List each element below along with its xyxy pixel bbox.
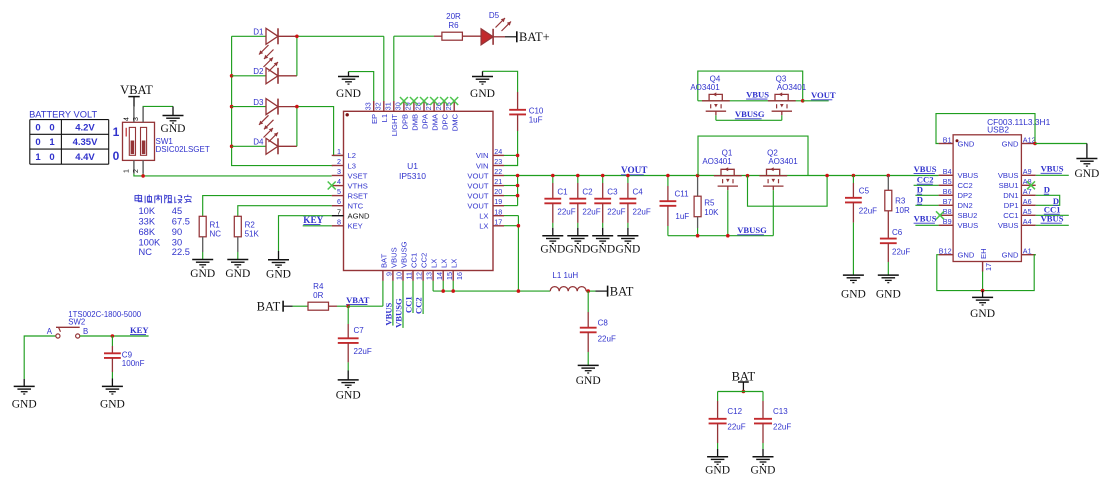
- svg-text:20R: 20R: [446, 12, 461, 21]
- U1 bottom pins 9-16: [379, 241, 464, 281]
- svg-text:4.4V: 4.4V: [75, 152, 95, 163]
- svg-text:D: D: [1044, 185, 1050, 195]
- capacitor C3: [594, 176, 611, 228]
- capacitor C5: [845, 176, 862, 276]
- svg-text:SBU2: SBU2: [958, 211, 978, 220]
- svg-text:R4: R4: [313, 282, 324, 291]
- svg-text:D5: D5: [489, 11, 500, 20]
- label Q2: [767, 148, 798, 166]
- svg-text:VTHS: VTHS: [348, 181, 368, 190]
- svg-text:6: 6: [337, 197, 341, 206]
- junction VBUS rail tap: [825, 174, 829, 178]
- svg-text:VBAT: VBAT: [120, 83, 153, 97]
- net label CC2 pin13: [414, 297, 424, 314]
- battery volt table grid: [30, 120, 109, 165]
- U1 right pins 17-24: [467, 147, 504, 231]
- svg-text:GND: GND: [565, 244, 590, 256]
- svg-text:B5: B5: [943, 177, 952, 186]
- svg-text:10: 10: [395, 272, 404, 280]
- svg-text:3: 3: [337, 167, 341, 176]
- net label VBUS A4: [1041, 214, 1064, 224]
- svg-text:GND: GND: [336, 389, 361, 401]
- LED D5: [481, 29, 505, 45]
- svg-text:VBUSG: VBUSG: [399, 241, 408, 268]
- wire LIGHT pin31 to R6: [394, 36, 434, 101]
- ground GND below C8: [576, 365, 601, 387]
- svg-text:GND: GND: [876, 289, 901, 301]
- ground GND below C12: [705, 449, 730, 477]
- wire VBUSG pin11: [402, 281, 404, 328]
- svg-text:AO3401: AO3401: [777, 83, 807, 92]
- D3 emission arrows: [259, 115, 274, 129]
- svg-text:22uF: 22uF: [859, 207, 877, 216]
- svg-text:VIN: VIN: [476, 161, 489, 170]
- svg-text:1uF: 1uF: [529, 116, 543, 125]
- svg-text:VBUSG: VBUSG: [737, 225, 767, 235]
- svg-text:EH: EH: [979, 248, 988, 259]
- svg-text:VBUSG: VBUSG: [394, 298, 404, 328]
- capacitor C8: [580, 291, 597, 365]
- connector USB2 body: [953, 135, 1021, 262]
- svg-text:B7: B7: [943, 197, 952, 206]
- svg-text:R1: R1: [210, 220, 221, 229]
- svg-text:B6: B6: [943, 187, 952, 196]
- svg-text:VBUS: VBUS: [1041, 164, 1064, 174]
- svg-text:C3: C3: [607, 187, 618, 196]
- wire VOUT pins: [504, 186, 518, 206]
- svg-text:L1: L1: [380, 114, 389, 122]
- port BAT above C12 C13: [732, 369, 756, 391]
- svg-text:C6: C6: [892, 228, 903, 237]
- svg-text:67.5: 67.5: [172, 216, 190, 226]
- capacitor C13: [754, 401, 772, 449]
- svg-text:GND: GND: [12, 399, 37, 411]
- svg-text:45: 45: [172, 206, 182, 216]
- svg-text:GND: GND: [705, 465, 730, 477]
- svg-text:VBUSG: VBUSG: [735, 109, 765, 119]
- ground GND at SW1: [161, 106, 186, 135]
- svg-text:B4: B4: [943, 167, 952, 176]
- label SW2 pin A: [47, 327, 53, 336]
- USB2 left pins: [939, 135, 979, 259]
- wire D4 anode: [232, 145, 266, 147]
- capacitor C1: [544, 176, 561, 228]
- label R6 value: [446, 12, 461, 30]
- junction C11 top: [666, 174, 670, 178]
- wire SW2 B to KEY: [80, 335, 149, 337]
- net label D B7: [917, 195, 923, 205]
- svg-text:DP2: DP2: [958, 191, 973, 200]
- D1 emission arrows: [259, 45, 274, 59]
- svg-text:CC2: CC2: [917, 175, 934, 185]
- svg-text:VBUS: VBUS: [958, 171, 979, 180]
- net label CC1 pin12: [404, 296, 414, 313]
- svg-text:VOUT: VOUT: [467, 191, 488, 200]
- svg-text:LX: LX: [479, 222, 488, 231]
- label C4: [633, 187, 651, 216]
- svg-text:32: 32: [374, 102, 383, 110]
- junction C2: [576, 174, 580, 178]
- svg-text:17: 17: [494, 217, 502, 226]
- svg-text:4.2V: 4.2V: [75, 122, 95, 133]
- svg-text:24: 24: [494, 147, 502, 156]
- svg-text:4: 4: [337, 177, 341, 186]
- ground GND below USB2: [970, 291, 995, 320]
- svg-text:VBUS: VBUS: [998, 171, 1019, 180]
- svg-text:R2: R2: [245, 220, 256, 229]
- svg-text:C8: C8: [598, 318, 609, 327]
- wire D1 D2 cathodes to L1 pin32: [297, 36, 384, 101]
- wire VBAT to pin9: [348, 281, 383, 306]
- svg-text:0R: 0R: [313, 291, 323, 300]
- USB2 right pins: [998, 135, 1036, 259]
- svg-text:10R: 10R: [895, 206, 910, 215]
- svg-text:AO3401: AO3401: [690, 83, 720, 92]
- svg-text:KEY: KEY: [303, 215, 323, 225]
- transistor Q3: [768, 92, 796, 115]
- net label VBUS at B4: [914, 164, 937, 174]
- svg-text:22uF: 22uF: [892, 248, 910, 257]
- svg-text:L2: L2: [348, 151, 356, 160]
- wire D B7: [915, 204, 938, 206]
- net label KEY at pin8: [303, 215, 323, 225]
- svg-text:51K: 51K: [245, 230, 260, 239]
- svg-text:1uF: 1uF: [675, 212, 689, 221]
- label R4: [313, 282, 324, 300]
- label D3: [253, 98, 264, 107]
- wire CC2 B5: [914, 184, 939, 186]
- SW1 pin numbers: [124, 117, 140, 173]
- ground GND below C3: [590, 228, 615, 256]
- svg-text:B1: B1: [943, 135, 952, 144]
- svg-text:22uF: 22uF: [582, 208, 600, 217]
- svg-text:0: 0: [49, 152, 54, 163]
- wire LX pins right: [504, 216, 518, 292]
- svg-text:VBUS: VBUS: [1041, 214, 1064, 224]
- net label VBAT: [346, 295, 370, 305]
- label SW2: [68, 310, 141, 326]
- wire Q3 Q4 top loop: [698, 71, 803, 101]
- svg-text:23: 23: [494, 157, 502, 166]
- resistor R6: [434, 32, 481, 40]
- power flag VBAT: [120, 83, 153, 107]
- svg-text:1: 1: [49, 137, 55, 148]
- svg-text:BAT: BAT: [732, 369, 756, 383]
- svg-text:22uF: 22uF: [607, 208, 625, 217]
- svg-text:DP1: DP1: [1004, 201, 1019, 210]
- wire Q2 gate: [772, 190, 774, 236]
- port BAT at L1: [608, 284, 634, 298]
- svg-text:USB2: USB2: [987, 125, 1009, 135]
- svg-text:31: 31: [384, 102, 393, 110]
- label R3: [895, 197, 910, 216]
- net label VBUS pin10: [383, 302, 393, 325]
- wire VBUS pin10: [392, 281, 394, 326]
- wire CC1 A5: [1036, 214, 1069, 216]
- svg-text:LX: LX: [450, 259, 459, 268]
- svg-text:B: B: [83, 327, 88, 336]
- svg-text:NTC: NTC: [348, 202, 364, 211]
- label Q3: [776, 74, 807, 92]
- capacitor C9: [104, 336, 121, 379]
- svg-text:DSIC02LSGET: DSIC02LSGET: [156, 145, 210, 154]
- svg-text:D4: D4: [253, 138, 264, 147]
- svg-text:GND: GND: [470, 88, 495, 100]
- capacitor C11: [660, 176, 677, 236]
- USB2 EH pin: [979, 248, 993, 271]
- svg-text:33K: 33K: [139, 216, 156, 226]
- svg-text:VBUS: VBUS: [998, 221, 1019, 230]
- svg-text:100nF: 100nF: [122, 359, 145, 368]
- wire A7 A6 loop: [1036, 195, 1060, 205]
- USB2 pin1 mark: [956, 139, 959, 142]
- svg-text:BAT+: BAT+: [519, 30, 550, 44]
- svg-text:GND: GND: [100, 399, 125, 411]
- junction R5 bottom: [696, 234, 700, 238]
- label C11: [675, 190, 690, 222]
- svg-text:VOUT: VOUT: [467, 202, 488, 211]
- svg-text:DMC: DMC: [451, 113, 460, 131]
- wire VOUT rail: [504, 175, 939, 177]
- label R5: [704, 199, 719, 218]
- svg-text:AO3401: AO3401: [702, 157, 732, 166]
- svg-text:B12: B12: [939, 247, 952, 256]
- junction VOUT pins: [516, 174, 520, 198]
- label L1: [552, 271, 578, 280]
- svg-text:A6: A6: [1023, 197, 1032, 206]
- svg-text:A4: A4: [1023, 217, 1032, 226]
- net label VBUS between Q4 Q3: [746, 90, 769, 100]
- svg-text:D: D: [917, 185, 923, 195]
- LED D4: [266, 138, 297, 154]
- svg-text:VBUS: VBUS: [383, 302, 393, 325]
- svg-text:4: 4: [124, 117, 131, 121]
- wire LED anode bus: [232, 36, 333, 165]
- svg-text:20: 20: [494, 187, 502, 196]
- svg-text:90: 90: [172, 227, 182, 237]
- svg-text:VBAT: VBAT: [346, 295, 370, 305]
- label SW2 pin B: [83, 327, 88, 336]
- svg-text:GND: GND: [576, 375, 601, 387]
- wire D5 to BAT+: [505, 36, 517, 38]
- svg-text:16: 16: [455, 272, 464, 280]
- svg-text:19: 19: [494, 197, 502, 206]
- ground GND near C10: [470, 71, 495, 100]
- svg-text:DN1: DN1: [1003, 191, 1018, 200]
- ground GND below C6: [876, 275, 901, 301]
- label D2: [253, 67, 264, 76]
- wire D B6: [915, 194, 938, 196]
- svg-text:IP5310: IP5310: [399, 171, 426, 181]
- wire Q4 Q3 row: [698, 100, 803, 102]
- svg-text:A1: A1: [1023, 247, 1032, 256]
- junction D3 cathode: [295, 105, 299, 109]
- svg-text:D3: D3: [253, 98, 264, 107]
- svg-text:9: 9: [385, 272, 394, 276]
- wire GND to C10 top: [483, 71, 518, 92]
- svg-text:R5: R5: [704, 199, 715, 208]
- label D1: [253, 28, 264, 37]
- svg-text:1: 1: [124, 169, 131, 173]
- junction USB GND: [981, 289, 985, 293]
- svg-text:VOUT: VOUT: [811, 90, 836, 100]
- wire NTC: [238, 206, 332, 217]
- svg-text:C7: C7: [354, 326, 365, 335]
- svg-text:L3: L3: [348, 161, 356, 170]
- label Q1: [702, 148, 733, 166]
- label C7: [354, 326, 372, 356]
- svg-text:VOUT: VOUT: [467, 171, 488, 180]
- svg-text:BAT: BAT: [379, 253, 388, 268]
- svg-text:SBU1: SBU1: [999, 181, 1019, 190]
- capacitor C7: [338, 306, 359, 370]
- svg-text:GND: GND: [1074, 168, 1099, 180]
- label SW1: [156, 137, 210, 154]
- ground GND at EP: [336, 72, 361, 101]
- label D5: [489, 11, 500, 20]
- svg-text:A5: A5: [1023, 207, 1032, 216]
- svg-text:C11: C11: [675, 190, 690, 199]
- svg-text:22uF: 22uF: [633, 208, 651, 217]
- net label CC1: [1044, 205, 1061, 215]
- svg-text:GND: GND: [225, 268, 250, 280]
- junction Q1-Q2 node: [746, 174, 750, 178]
- svg-text:KEY: KEY: [130, 325, 149, 335]
- junction LX17: [517, 224, 521, 228]
- svg-text:GND: GND: [615, 244, 640, 256]
- wire VIN pins: [504, 155, 518, 165]
- junction BAT C12 C13: [742, 390, 746, 394]
- label USB2: [987, 117, 1051, 135]
- net label VBUS A9: [1041, 164, 1064, 174]
- wire BAT to R4: [283, 305, 308, 307]
- wire VBUSG rail: [668, 235, 773, 237]
- no-connect X pin VTHS: [328, 182, 336, 190]
- wire B1 A12 loop: [936, 114, 1035, 144]
- RSET table text: [139, 206, 190, 257]
- svg-text:CC1: CC1: [1003, 211, 1018, 220]
- svg-text:CC2: CC2: [958, 181, 973, 190]
- svg-text:22uF: 22uF: [773, 423, 791, 432]
- no-connect X A8: [1027, 181, 1035, 189]
- svg-text:C2: C2: [582, 187, 593, 196]
- resistor R2: [234, 216, 241, 259]
- resistor R5: [694, 176, 701, 236]
- SW1 position labels: [113, 125, 120, 163]
- svg-text:0: 0: [35, 122, 40, 133]
- svg-text:22uF: 22uF: [598, 334, 616, 343]
- wire BAT to C12 C13: [718, 392, 763, 402]
- junction C9: [111, 334, 115, 338]
- svg-text:1: 1: [35, 152, 41, 163]
- inductor L1: [550, 287, 586, 292]
- wire EP pin33 to GND: [349, 72, 374, 101]
- svg-text:GND: GND: [590, 244, 615, 256]
- svg-text:D: D: [917, 195, 923, 205]
- svg-text:U1: U1: [407, 161, 418, 171]
- svg-text:14: 14: [435, 272, 444, 280]
- svg-text:GND: GND: [970, 308, 995, 320]
- svg-text:13: 13: [425, 272, 434, 280]
- svg-text:3: 3: [133, 117, 140, 121]
- svg-text:DPC: DPC: [441, 113, 450, 130]
- svg-text:100K: 100K: [139, 237, 162, 247]
- U1 pin1 mark: [346, 113, 349, 116]
- svg-text:GND: GND: [336, 88, 361, 100]
- wire AGND: [279, 216, 332, 251]
- junction C5: [852, 174, 856, 178]
- wire LX rail to L1: [433, 281, 550, 291]
- svg-text:0: 0: [113, 149, 120, 163]
- junction C1: [551, 174, 555, 178]
- net label VBUSG pin11: [394, 298, 404, 328]
- svg-text:DPA: DPA: [420, 113, 429, 129]
- label C13: [773, 407, 791, 432]
- svg-text:C10: C10: [529, 107, 544, 116]
- ground GND below C2: [565, 228, 590, 256]
- resistor R1: [199, 216, 206, 259]
- label C10: [529, 107, 544, 125]
- ground GND below C1: [540, 228, 565, 256]
- net label VBUSG gates: [735, 109, 765, 119]
- svg-text:10K: 10K: [139, 206, 156, 216]
- svg-text:4.35V: 4.35V: [73, 137, 98, 148]
- ground GND below C13: [751, 449, 776, 477]
- wire SW1 pins to VSET: [134, 174, 332, 176]
- svg-text:1: 1: [337, 147, 341, 156]
- svg-text:2: 2: [337, 157, 341, 166]
- label C5: [859, 186, 877, 215]
- junction VBAT: [346, 304, 350, 308]
- wire D3 D4 cathodes to L2 pin1: [297, 107, 344, 156]
- svg-text:C5: C5: [859, 186, 870, 195]
- svg-text:NC: NC: [210, 230, 222, 239]
- wire VBUS A9: [1036, 174, 1069, 176]
- wire Q4 Q3 gates: [716, 115, 782, 120]
- wire Q1 Q2 top loop: [698, 136, 808, 175]
- svg-text:GND: GND: [190, 268, 215, 280]
- svg-text:2: 2: [133, 169, 140, 173]
- label Q4: [690, 74, 721, 92]
- svg-text:EP: EP: [370, 114, 379, 124]
- net label VOUT at Q3: [811, 90, 836, 100]
- LED D2: [266, 68, 297, 84]
- label R1: [210, 220, 222, 238]
- svg-text:22: 22: [494, 167, 502, 176]
- label battery internal resistance setting (Chinese): [135, 195, 191, 204]
- net label D B6: [917, 185, 923, 195]
- wire B12 A1 GND loop: [937, 255, 1036, 291]
- svg-text:0: 0: [35, 137, 40, 148]
- label C8: [598, 318, 616, 343]
- svg-text:GND: GND: [540, 244, 565, 256]
- svg-text:R3: R3: [895, 197, 906, 206]
- ground GND below C4: [615, 228, 640, 256]
- wire mid node to VBUS rail: [748, 176, 828, 207]
- svg-text:SW2: SW2: [68, 318, 85, 327]
- ground GND below C7: [336, 371, 361, 402]
- svg-text:GND: GND: [958, 251, 975, 260]
- battery volt table text: [35, 122, 98, 163]
- wire VBUS A4: [1036, 224, 1069, 226]
- svg-text:CC1: CC1: [409, 253, 418, 268]
- junction Q3 out: [801, 99, 805, 103]
- svg-text:10K: 10K: [704, 208, 719, 217]
- svg-text:VOUT: VOUT: [467, 181, 488, 190]
- no-connect X pins 25-30: [400, 97, 458, 105]
- svg-text:KEY: KEY: [348, 222, 363, 231]
- wire RSET: [203, 196, 332, 217]
